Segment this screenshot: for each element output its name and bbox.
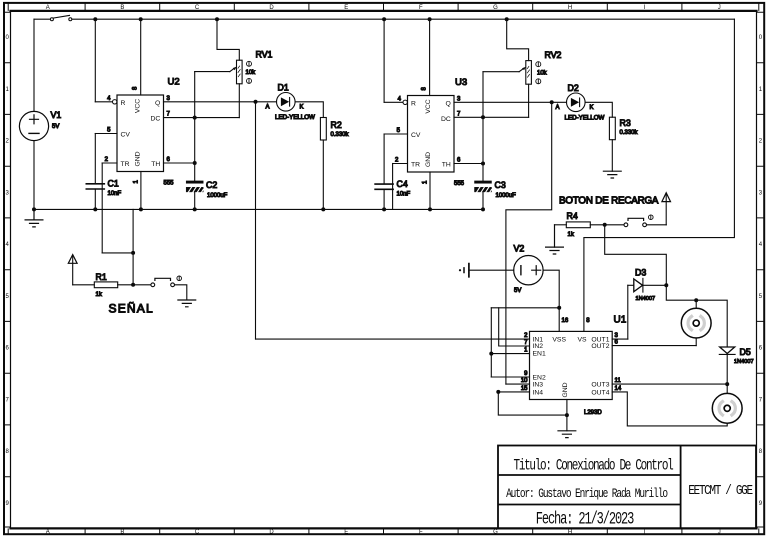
junction dot OUT3 node: [725, 382, 729, 386]
ground symbol at R4: [546, 225, 564, 254]
junction dot DC node: [193, 116, 197, 120]
svg-text:5V: 5V: [52, 124, 59, 130]
junction dot R1 button node: [131, 283, 135, 287]
svg-text:Q: Q: [155, 100, 160, 107]
node BOTON arrow: [662, 193, 671, 202]
svg-text:C2: C2: [206, 180, 217, 190]
svg-text:IN3: IN3: [533, 382, 544, 389]
svg-text:U2: U2: [168, 77, 180, 88]
wire TR link horizontal: [102, 252, 133, 254]
svg-text:R3: R3: [620, 118, 631, 128]
resistor R2: [320, 118, 326, 141]
svg-text:R: R: [411, 100, 416, 107]
wire motor1 bottom stem: [695, 338, 697, 346]
border row ticks right: [757, 63, 765, 477]
LED D1: [277, 93, 296, 112]
wire RV2 wiper to DC/TH node: [483, 71, 519, 73]
wire motor2 top stem: [726, 384, 728, 393]
wire U1 pin 14 OUT4 to motor2 bottom: [612, 392, 727, 426]
push button RECARGA terminals: [624, 223, 628, 227]
svg-text:TH: TH: [442, 162, 451, 169]
wire IN4 to GND wire: [498, 392, 567, 415]
wire arrow stem to button: [665, 195, 667, 225]
wire U1 pin 6 OUT2 to motor1: [612, 345, 696, 347]
wire R4 left lead: [555, 224, 567, 226]
svg-text:Autor: Gustavo Enrique Rada Mu: Autor: Gustavo Enrique Rada Murillo: [506, 487, 668, 502]
junction dot VSS node: [557, 306, 561, 310]
RV1 wiper arrow: [230, 68, 234, 71]
svg-text:G: G: [493, 5, 498, 11]
motor M2: [712, 393, 742, 423]
junction dot D3 cathode node: [664, 283, 668, 287]
op-amp/timer U3 555 body: [408, 96, 455, 173]
svg-text:555: 555: [164, 181, 175, 187]
wire 5V feed from top rail to VS: [584, 19, 735, 331]
wire U3 pin 7 DC: [454, 116, 529, 118]
wire to R1 left: [73, 284, 95, 286]
wire Q node down to IN1: [255, 102, 257, 339]
svg-text:10nF: 10nF: [397, 191, 411, 197]
svg-text:R2: R2: [331, 120, 342, 130]
wire R4 node jog to D3 cathode: [605, 225, 667, 285]
V2 terminal cell symbol: [459, 264, 469, 277]
voltage source V1: [19, 111, 48, 140]
wire motor1 top stem: [695, 300, 697, 308]
svg-text:U1: U1: [614, 315, 627, 326]
svg-text:U3: U3: [455, 77, 467, 88]
diode D5: [719, 347, 735, 354]
wire C2 to ground rail: [194, 192, 196, 209]
svg-text:V1: V1: [51, 110, 62, 120]
svg-text:Titulo: Conexionado De Control: Titulo: Conexionado De Control: [514, 458, 674, 475]
svg-text:DC: DC: [150, 116, 160, 123]
svg-text:TR: TR: [121, 161, 130, 168]
wire button to arrow stem: [647, 224, 667, 226]
junction dots on ground rail: [32, 207, 485, 211]
op-amp/timer U2 555 body: [117, 95, 164, 172]
RV1 pin 1 marker: [247, 61, 252, 66]
motor M1: [681, 308, 711, 338]
LED D2: [567, 93, 586, 112]
border column ticks bottom: [85, 528, 682, 534]
svg-text:L293D: L293D: [584, 410, 602, 416]
svg-text:F: F: [419, 530, 423, 536]
wire V1 negative lead: [33, 141, 35, 210]
svg-text:R4: R4: [567, 211, 578, 221]
wire U1 pin 11 OUT3: [612, 383, 727, 385]
wire U1 pin 10 IN3: [506, 383, 530, 385]
svg-text:D1: D1: [278, 83, 289, 93]
svg-text:1N4007: 1N4007: [636, 296, 656, 302]
svg-text:A: A: [46, 5, 50, 11]
svg-text:0.330k: 0.330k: [620, 130, 639, 136]
svg-text:TR: TR: [411, 162, 420, 169]
svg-text:B: B: [120, 530, 124, 536]
push button SENAL terminals: [151, 283, 155, 287]
svg-text:E: E: [344, 5, 348, 11]
wire DC/TH node down to C2: [194, 72, 196, 181]
wire arrow stem to R1: [72, 257, 74, 285]
ground symbol at U1: [558, 431, 576, 438]
wire U2 pin 8 VCC: [140, 19, 142, 95]
wire U2 pin 5 CV: [95, 133, 117, 135]
wire D2 cathode to R3: [585, 102, 612, 117]
wire U1 pin 1 EN1: [491, 353, 529, 355]
wire U3 pin 5 CV: [384, 133, 407, 135]
svg-text:V2: V2: [514, 244, 525, 254]
svg-text:IN2: IN2: [533, 343, 544, 350]
push button RECARGA marker: [649, 215, 654, 220]
wire RV2 bottom terminal to DC wire: [528, 84, 530, 117]
U3 pin names: [411, 99, 451, 168]
border row ticks left: [4, 63, 11, 477]
svg-text:IN4: IN4: [533, 390, 544, 397]
svg-text:A: A: [46, 530, 50, 536]
wire U1 pin 7 IN2: [499, 308, 530, 346]
wire R4 right lead to button: [590, 224, 624, 226]
svg-text:EN1: EN1: [533, 351, 546, 358]
junction dot DC node of U3: [481, 115, 485, 119]
capacitor C1: [86, 184, 104, 189]
svg-text:16: 16: [562, 318, 569, 324]
svg-text:J: J: [718, 530, 721, 536]
svg-text:RV1: RV1: [256, 50, 273, 60]
capacitor C2 electrolytic: [186, 181, 203, 192]
svg-text:1k: 1k: [96, 292, 103, 298]
svg-text:RV2: RV2: [545, 50, 562, 60]
wire R3 to ground: [611, 140, 613, 172]
wire U3 Q node down jog: [506, 102, 552, 384]
wire button to ground: [175, 285, 187, 300]
svg-text:OUT4: OUT4: [591, 390, 609, 397]
svg-text:CV: CV: [411, 132, 421, 139]
svg-text:D5: D5: [740, 347, 751, 357]
wire U3 pin 4 reset from VCC rail: [383, 19, 385, 102]
svg-text:TH: TH: [151, 161, 160, 168]
svg-text:11: 11: [615, 378, 622, 384]
svg-text:H: H: [568, 5, 572, 11]
wire V2 positive lead to VSS: [543, 270, 559, 331]
wire RV1 bottom terminal to DC wire: [238, 84, 240, 118]
wire DC/TH node down to C3: [482, 72, 484, 181]
junction dot R4 node: [603, 223, 607, 227]
capacitor C3 electrolytic: [475, 181, 492, 192]
wire D1 cathode to R2: [295, 102, 323, 118]
junction dot IN4 corner: [496, 390, 500, 394]
battery source V2: [514, 256, 543, 285]
svg-text:Fecha: 21/3/2023: Fecha: 21/3/2023: [536, 510, 635, 530]
svg-text:F: F: [419, 5, 423, 11]
capacitor C4: [375, 184, 393, 189]
junction dots on top VCC rail: [93, 17, 508, 21]
svg-text:D: D: [269, 5, 274, 11]
svg-text:G: G: [493, 530, 498, 536]
svg-text:VCC: VCC: [425, 99, 432, 113]
svg-text:555: 555: [454, 181, 465, 187]
junction dot Q output node of U3: [550, 100, 554, 104]
U3 pin 4 inversion bubble: [403, 100, 407, 104]
ground symbol at R3: [603, 171, 621, 178]
wire EN vertical: [490, 308, 492, 377]
svg-text:R1: R1: [96, 272, 107, 282]
svg-text:C1: C1: [108, 179, 119, 189]
wire D3 cathode node to motor1 top and D5: [666, 285, 727, 347]
RV2 pin 3 marker: [536, 79, 541, 84]
junction dot GND node: [565, 413, 569, 417]
wire RV2 top terminal to VCC rail: [507, 19, 529, 60]
wire U1 GND pin down: [566, 400, 568, 431]
svg-text:15: 15: [521, 386, 528, 392]
title block box: [498, 446, 756, 529]
potentiometer RV1 body: [237, 60, 243, 84]
svg-text:K: K: [590, 105, 594, 111]
wire C1 to ground rail: [94, 189, 96, 209]
svg-text:CV: CV: [121, 132, 131, 139]
wire top rail VCC net: [72, 18, 734, 20]
junction dot TH node: [193, 161, 197, 165]
potentiometer RV2 body: [526, 61, 532, 85]
switch SW1 lever: [54, 15, 70, 18]
push button SENAL actuator bar: [155, 278, 171, 280]
svg-text:OUT2: OUT2: [591, 343, 609, 350]
svg-text:GND: GND: [425, 152, 432, 167]
svg-text:DC: DC: [441, 116, 451, 123]
svg-text:LED-YELLOW: LED-YELLOW: [275, 114, 315, 121]
wire U3 pin 2 TR: [393, 163, 408, 165]
svg-text:GND: GND: [135, 151, 142, 166]
wire RV1 wiper to DC/TH node: [195, 71, 230, 73]
wire U2 pin 1 GND: [140, 172, 142, 210]
svg-text:LED-YELLOW: LED-YELLOW: [565, 115, 605, 122]
wire TR link vertical to ground rail: [132, 209, 134, 284]
wire U3 pin 1 GND: [429, 172, 431, 209]
ground symbol at SENAL button: [178, 300, 196, 307]
svg-text:C: C: [195, 530, 200, 536]
svg-text:1N4007: 1N4007: [734, 359, 754, 365]
wire U1 pin 15 IN4: [498, 391, 529, 393]
svg-text:1000uF: 1000uF: [207, 193, 228, 199]
svg-text:D2: D2: [568, 83, 579, 93]
svg-text:14: 14: [615, 386, 622, 392]
junction dot EN1 node: [489, 352, 493, 356]
wire R2 to ground rail: [322, 140, 324, 209]
U1 pin names: [533, 337, 610, 398]
wire U2 pin 6 TH: [164, 162, 195, 164]
wire U2 pin 3 Q output: [164, 101, 277, 103]
svg-text:EN2: EN2: [533, 375, 546, 382]
RV2 wiper arrow: [519, 69, 523, 72]
diode D3: [628, 278, 667, 292]
svg-text:1000uF: 1000uF: [496, 193, 517, 199]
svg-text:A: A: [556, 105, 560, 111]
svg-text:5V: 5V: [514, 288, 521, 294]
resistor R1: [94, 282, 117, 288]
wire U3 pin 6 TH: [454, 163, 483, 165]
wire IN1 long horizontal: [256, 338, 530, 340]
svg-text:BOTON DE RECARGA: BOTON DE RECARGA: [559, 195, 659, 206]
svg-text:EETCMT / GGE: EETCMT / GGE: [688, 483, 752, 499]
RV2 pin 1 marker: [536, 62, 541, 67]
svg-text:SEÑAL: SEÑAL: [109, 302, 154, 316]
U2 pin names: [121, 99, 161, 168]
U2 pin 4 inversion bubble: [113, 100, 117, 104]
svg-text:10k: 10k: [246, 70, 257, 76]
push button RECARGA actuator bar: [628, 218, 644, 220]
wire OUT1 up to D3 anode: [627, 285, 629, 339]
svg-text:VS: VS: [577, 337, 587, 344]
wire U2 pin 7 DC: [164, 117, 240, 119]
svg-text:D3: D3: [635, 268, 646, 278]
node SENAL input arrow: [68, 255, 77, 264]
wire VSS node to EN1 vertical: [491, 307, 559, 309]
wire RV1 top terminal to VCC rail: [217, 19, 239, 60]
switch SW1 contacts: [50, 18, 71, 21]
junction dot Q output node: [254, 100, 258, 104]
junction dot TR link corner: [131, 251, 135, 255]
svg-text:R: R: [121, 100, 126, 107]
junction dot motor1 top: [694, 298, 698, 302]
svg-text:C3: C3: [495, 180, 506, 190]
svg-text:10: 10: [521, 378, 528, 384]
wire U2 pin 2 TR: [102, 162, 117, 164]
svg-text:D: D: [269, 530, 274, 536]
svg-text:K: K: [300, 105, 304, 111]
svg-text:B: B: [120, 5, 124, 11]
wire top rail left of switch: [34, 18, 50, 20]
RV1 pin 3 marker: [247, 78, 252, 83]
svg-text:C4: C4: [397, 179, 408, 189]
svg-text:1k: 1k: [568, 232, 575, 238]
wire U1 pin 9 EN2: [491, 376, 529, 378]
svg-text:C: C: [195, 5, 200, 11]
svg-text:Q: Q: [446, 100, 451, 107]
wire U1 pin 3 OUT1: [612, 338, 628, 340]
junction dot TH node of U3: [481, 162, 485, 166]
wire U3 pin 3 Q output: [454, 101, 567, 103]
wire R1 to button: [118, 284, 151, 286]
wire U3 pin 8 VCC: [429, 19, 431, 95]
border column ticks top: [85, 3, 682, 11]
wire V1 positive lead: [33, 19, 35, 111]
svg-text:VCC: VCC: [135, 99, 142, 113]
svg-text:H: H: [568, 530, 572, 536]
svg-text:A: A: [266, 105, 270, 111]
wire U2 pin 4 reset from VCC rail: [94, 19, 96, 102]
svg-text:VSS: VSS: [552, 337, 566, 344]
svg-text:10k: 10k: [537, 71, 548, 77]
resistor R3: [609, 117, 615, 140]
svg-text:GND: GND: [562, 382, 569, 397]
wire C4 to ground rail: [383, 189, 385, 209]
wire D5 to OUT3 node: [726, 354, 728, 385]
wire ground rail net GND: [34, 208, 483, 210]
wire V2 negative lead: [469, 269, 514, 271]
wire C3 to ground rail: [482, 192, 484, 209]
resistor R4: [566, 222, 590, 228]
svg-text:0.330k: 0.330k: [331, 132, 350, 138]
ground symbol at V1: [25, 209, 43, 227]
svg-text:E: E: [344, 530, 348, 536]
svg-text:OUT3: OUT3: [591, 382, 609, 389]
svg-text:J: J: [718, 5, 721, 11]
motor driver U1 L293D body: [530, 331, 613, 399]
svg-text:10nF: 10nF: [108, 191, 122, 197]
push button SENAL marker: [177, 276, 182, 281]
